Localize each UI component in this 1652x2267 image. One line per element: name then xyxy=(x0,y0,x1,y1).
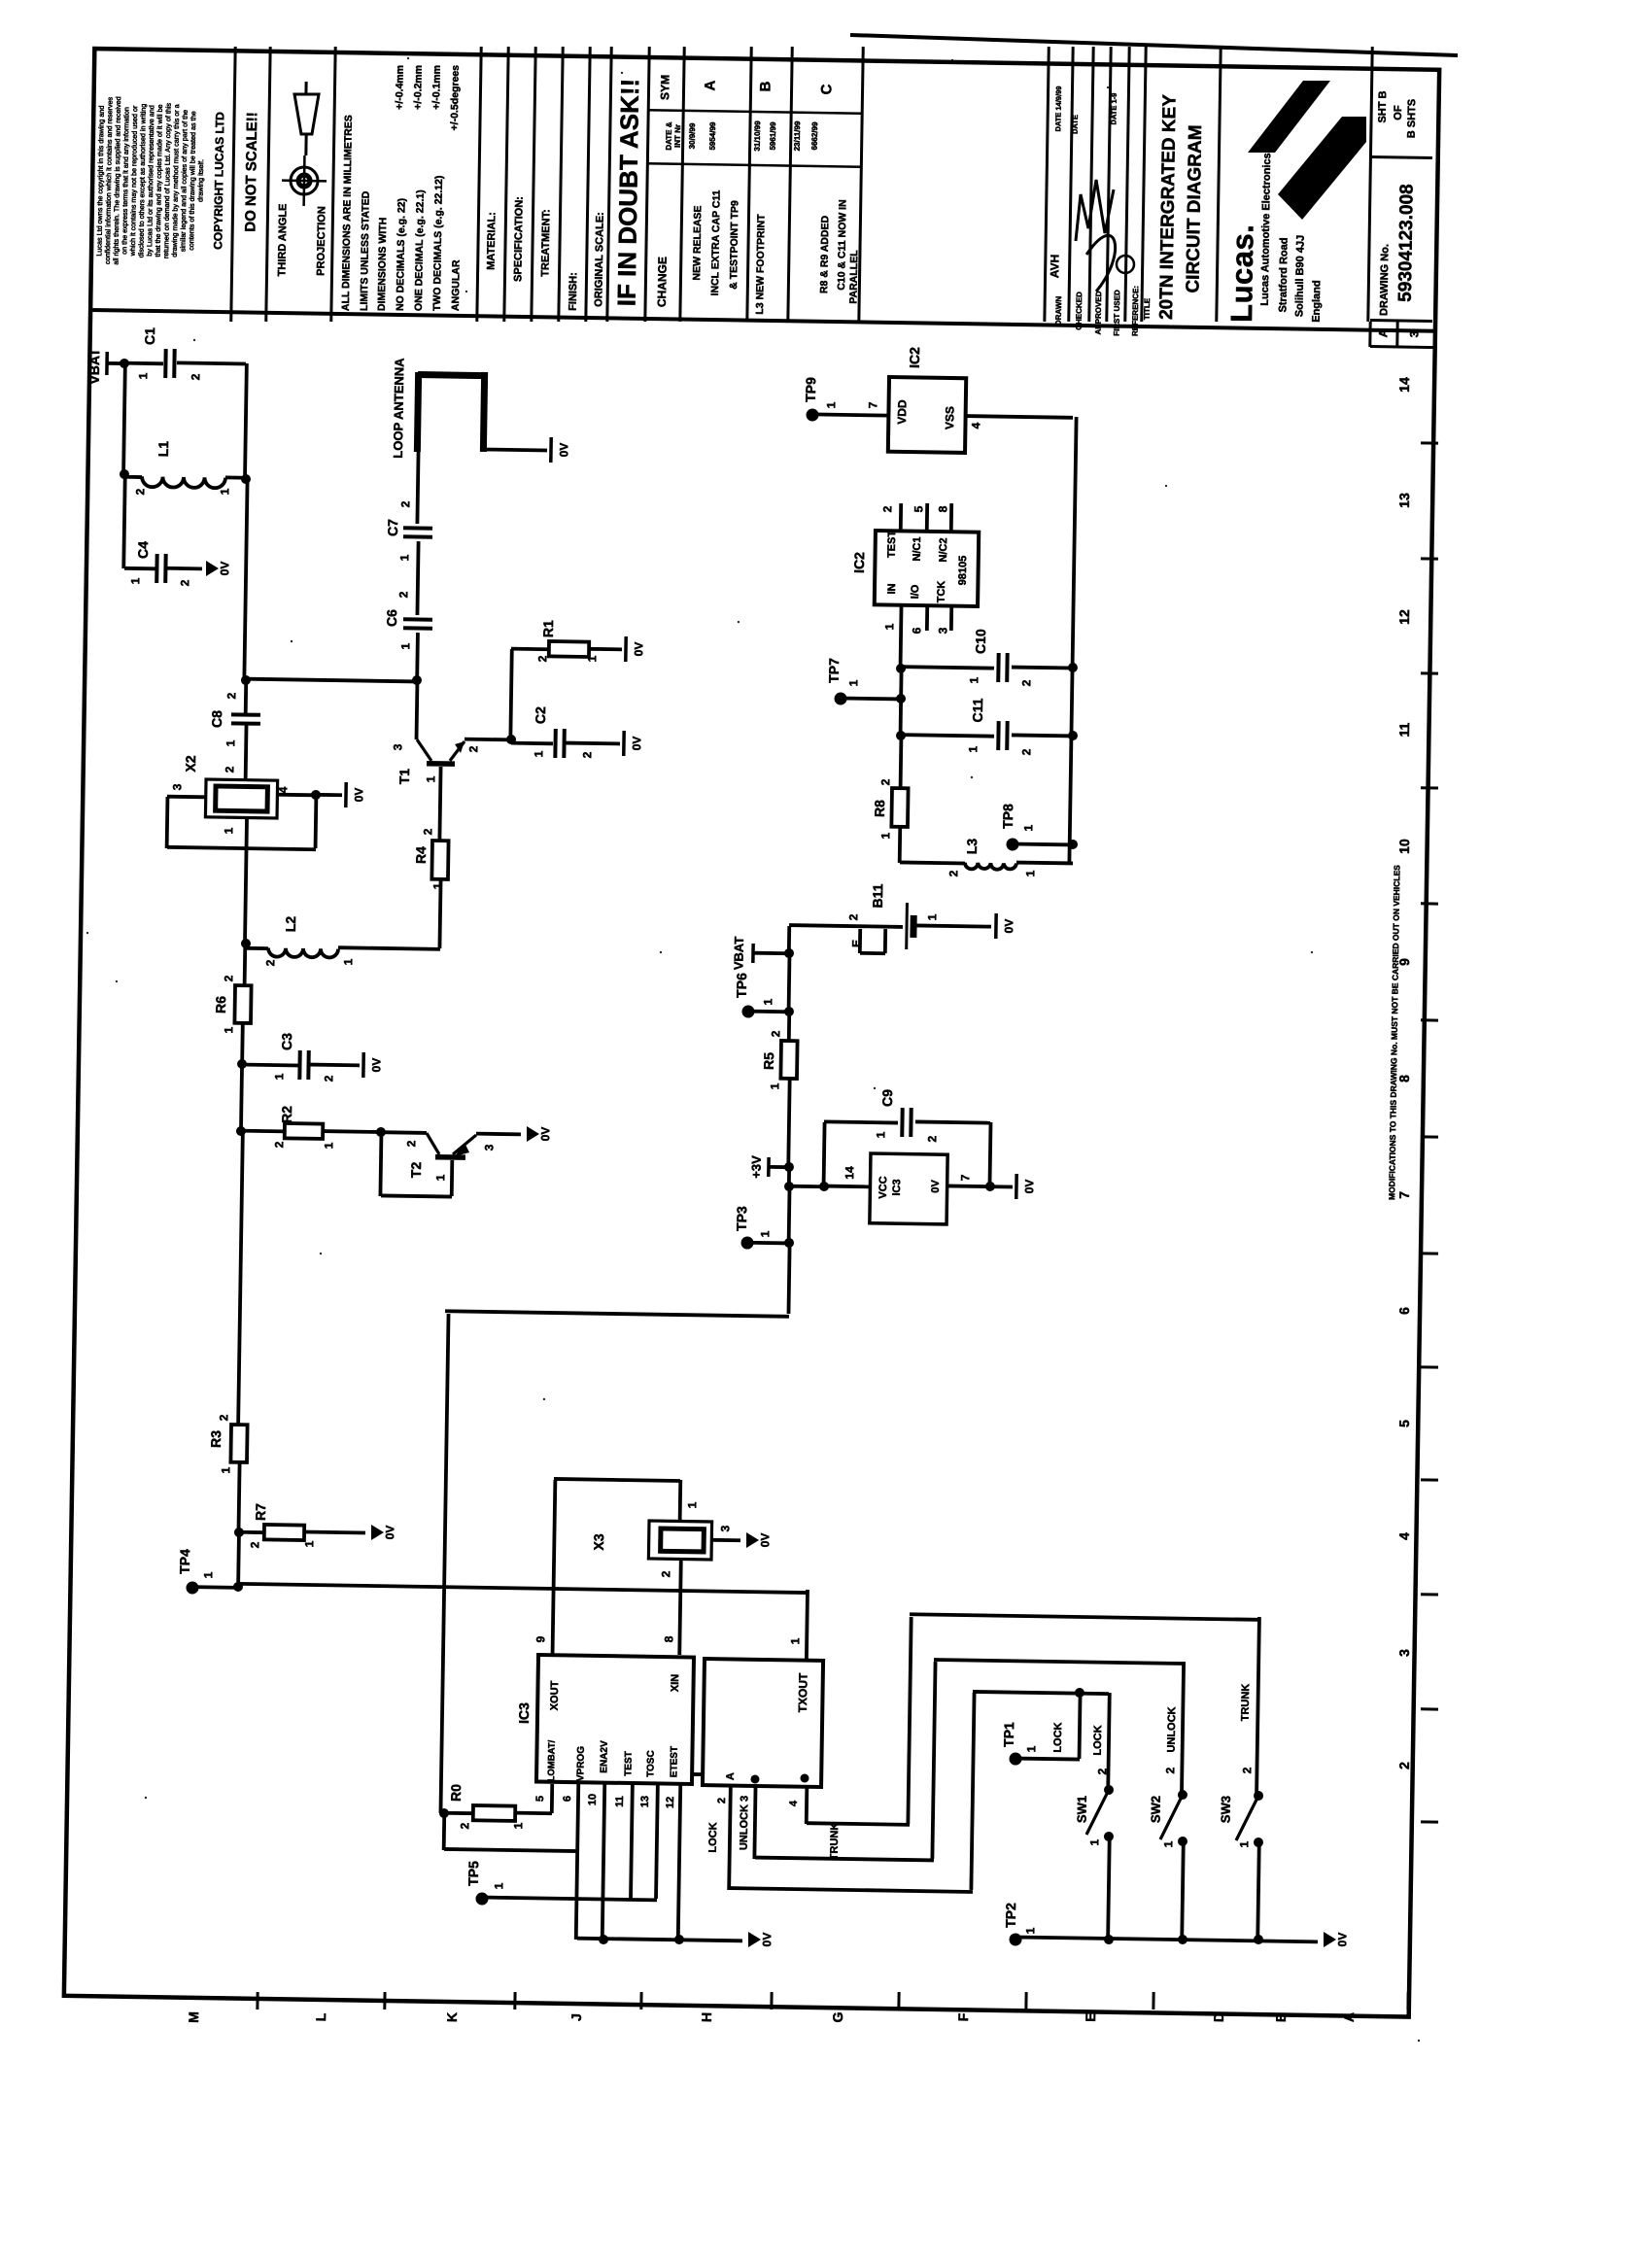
svg-text:VCC: VCC xyxy=(878,1176,889,1198)
svg-text:LOCK: LOCK xyxy=(1052,1722,1064,1752)
svg-text:K: K xyxy=(444,2012,460,2022)
wire R6 to C3 node xyxy=(240,1023,244,1064)
material divider xyxy=(504,47,508,322)
node L1 left xyxy=(120,469,129,479)
wire node to C9 loop node xyxy=(789,1185,824,1188)
node pin12 ground xyxy=(674,1935,684,1944)
svg-text:C11: C11 xyxy=(970,698,985,722)
projection symbol cone xyxy=(293,94,319,135)
svg-text:A: A xyxy=(702,80,718,90)
wire LOCK bus to SW1 xyxy=(1108,1693,1110,1790)
TXOUT block xyxy=(703,1659,823,1787)
test point TP1 xyxy=(1009,1752,1021,1765)
test point TP7 xyxy=(834,692,846,704)
loop antenna symbol xyxy=(417,372,418,452)
ground 0V arrow at switch rail xyxy=(1324,1932,1336,1947)
node VCC branch xyxy=(784,1182,794,1191)
wire down to TP4 node xyxy=(236,1532,241,1587)
battery B11 xyxy=(789,925,903,927)
svg-text:0V: 0V xyxy=(632,642,645,657)
svg-text:IC2: IC2 xyxy=(851,552,867,573)
svg-text:E: E xyxy=(849,940,863,947)
svg-text:2: 2 xyxy=(1019,748,1033,755)
svg-text:9: 9 xyxy=(533,1635,547,1642)
svg-text:IC3: IC3 xyxy=(891,1179,903,1195)
wire X3 pin2 to XIN xyxy=(679,1560,681,1655)
IC2 pin 8 stub xyxy=(949,503,953,531)
svg-text:H: H xyxy=(699,2012,714,2022)
left rail down to R0 node xyxy=(440,1314,448,1813)
transistor T2 xyxy=(381,1130,427,1135)
svg-text:C6: C6 xyxy=(384,609,399,627)
svg-text:DATE: DATE xyxy=(1071,115,1080,134)
wire R0 to IC3 pin5 xyxy=(515,1811,552,1815)
svg-text:L3 NEW FOOTPRINT: L3 NEW FOOTPRINT xyxy=(754,214,768,315)
rev B divider xyxy=(788,47,792,322)
capacitor C7 xyxy=(403,526,432,530)
svg-text:1: 1 xyxy=(222,827,235,834)
svg-text:1: 1 xyxy=(424,775,437,782)
sig col divider 3 xyxy=(1089,47,1093,322)
svg-text:12: 12 xyxy=(665,1797,676,1808)
svg-text:+/-0.2mm: +/-0.2mm xyxy=(412,65,425,110)
svg-text:3: 3 xyxy=(391,743,404,750)
svg-text:IF IN DOUBT ASK!!: IF IN DOUBT ASK!! xyxy=(612,79,645,307)
svg-text:2: 2 xyxy=(1163,1767,1177,1773)
wire X3 pin3 to ground arrow xyxy=(711,1538,740,1542)
svg-text:0V: 0V xyxy=(1002,919,1015,934)
IC3 pin 13 stub xyxy=(656,1784,658,1899)
wire X3 pin1 loop to XOUT xyxy=(678,1480,682,1521)
wire T2 collector to ground arrow xyxy=(476,1132,521,1137)
svg-text:0V: 0V xyxy=(383,1526,396,1540)
IC2 pin 6 stub xyxy=(925,606,929,631)
crystal X3 xyxy=(648,1521,711,1560)
svg-text:L2: L2 xyxy=(283,916,298,933)
svg-text:2: 2 xyxy=(466,745,480,752)
wire IC2 VSS to right rail xyxy=(965,416,1073,418)
svg-text:VBAT: VBAT xyxy=(86,348,103,385)
node SW3 ground xyxy=(1254,1935,1263,1944)
svg-text:1: 1 xyxy=(1087,1838,1101,1845)
svg-text:ALL DIMENSIONS ARE IN MILLIMET: ALL DIMENSIONS ARE IN MILLIMETRES xyxy=(340,115,355,311)
svg-text:IC2: IC2 xyxy=(907,347,922,368)
svg-text:1: 1 xyxy=(201,1571,215,1578)
svg-text:CHECKED: CHECKED xyxy=(1075,292,1084,330)
wire C4 to ground xyxy=(167,567,202,570)
svg-text:31/10/99: 31/10/99 xyxy=(753,120,762,152)
specification divider xyxy=(532,47,535,322)
capacitor C11 xyxy=(901,735,994,737)
svg-text:COPYRIGHT LUCAS LTD: COPYRIGHT LUCAS LTD xyxy=(211,112,226,250)
svg-text:2: 2 xyxy=(322,1075,335,1082)
wire node down to C8 xyxy=(244,680,248,713)
ground 0V at R1 xyxy=(624,636,628,662)
svg-text:20TN INTERGRATED KEY: 20TN INTERGRATED KEY xyxy=(1156,94,1181,321)
svg-text:D: D xyxy=(1211,2012,1226,2022)
wire rail between xyxy=(901,669,902,736)
svg-text:I/O: I/O xyxy=(910,584,921,599)
svg-text:1: 1 xyxy=(136,372,150,379)
svg-text:4: 4 xyxy=(788,1800,800,1806)
svg-text:98105: 98105 xyxy=(957,556,969,586)
wire TRUNK bus to SW3 xyxy=(1256,1617,1259,1796)
wire C2 to ground xyxy=(566,741,620,746)
title block separator line xyxy=(90,310,1435,331)
svg-text:LOMBAT/: LOMBAT/ xyxy=(546,1739,558,1781)
svg-text:0V: 0V xyxy=(538,1127,552,1142)
wire T1 emitter to node xyxy=(465,738,511,742)
node SW2 ground xyxy=(1178,1935,1187,1944)
svg-text:5: 5 xyxy=(912,505,925,512)
svg-text:NEW RELEASE: NEW RELEASE xyxy=(691,205,704,280)
svg-text:1: 1 xyxy=(761,998,774,1005)
svg-text:IN: IN xyxy=(886,583,898,594)
svg-text:1: 1 xyxy=(397,554,411,561)
svg-text:R6: R6 xyxy=(213,996,228,1013)
svg-text:0V: 0V xyxy=(369,1058,383,1073)
node R2 junction xyxy=(236,1126,246,1136)
svg-text:1: 1 xyxy=(222,1026,235,1033)
projection divider xyxy=(331,47,335,322)
svg-text:13: 13 xyxy=(1396,493,1412,508)
wire C7 to C6 xyxy=(417,541,418,615)
svg-text:A: A xyxy=(1341,2012,1357,2022)
wire node to C3 xyxy=(242,1063,298,1068)
svg-text:TP1: TP1 xyxy=(1001,1722,1016,1747)
page edge line top right xyxy=(850,35,1458,55)
IC3 pin 5 stub xyxy=(550,1784,554,1813)
svg-text:SPECIFICATION:: SPECIFICATION: xyxy=(512,196,525,282)
svg-text:F: F xyxy=(955,2012,971,2021)
wire TP4 node to TXOUT pin 1 xyxy=(238,1584,808,1593)
svg-text:TP7: TP7 xyxy=(826,658,842,683)
svg-text:1: 1 xyxy=(433,1174,447,1181)
wire left rail down to R8 xyxy=(899,736,904,788)
svg-text:10: 10 xyxy=(1396,839,1412,854)
switch SW2 xyxy=(1178,1790,1187,1800)
svg-text:C2: C2 xyxy=(533,706,548,724)
svg-text:1: 1 xyxy=(788,1637,802,1644)
capacitor C6 xyxy=(403,617,432,621)
wire corner down to L1 right node xyxy=(245,363,247,479)
svg-text:A: A xyxy=(725,1772,737,1780)
svg-text:VDD: VDD xyxy=(895,399,909,425)
wire R2 node down to R3 xyxy=(238,1131,243,1425)
wire rail to IC3 pin6 xyxy=(442,1813,446,1850)
svg-text:2: 2 xyxy=(223,766,236,773)
sig col divider 4 xyxy=(1107,47,1111,322)
svg-text:R5: R5 xyxy=(761,1052,776,1070)
svg-text:6: 6 xyxy=(562,1796,573,1802)
svg-text:R2: R2 xyxy=(279,1106,294,1123)
svg-text:T2: T2 xyxy=(408,1161,424,1178)
svg-text:2: 2 xyxy=(1019,679,1033,686)
ground 0V arrow at X3 xyxy=(746,1532,759,1548)
svg-text:2: 2 xyxy=(272,1141,286,1148)
wire to VCC branch node xyxy=(787,1167,791,1186)
svg-text:ORIGINAL SCALE:: ORIGINAL SCALE: xyxy=(593,212,606,307)
svg-text:1: 1 xyxy=(272,1073,286,1080)
date row underline xyxy=(647,163,861,166)
wire X2 case pin3 loop xyxy=(167,795,206,799)
svg-text:2: 2 xyxy=(1095,1768,1109,1774)
wire node to IC3 VCC pin14 xyxy=(824,1185,871,1189)
svg-text:2: 2 xyxy=(133,488,147,495)
svg-text:2: 2 xyxy=(535,655,549,662)
svg-text:TP8: TP8 xyxy=(1000,804,1015,829)
TXOUT pin C dot xyxy=(800,1773,809,1782)
inductor L1 xyxy=(124,475,142,479)
test point TP4 xyxy=(186,1581,198,1594)
node C8 top xyxy=(241,675,251,685)
svg-text:8: 8 xyxy=(1396,1075,1412,1082)
test point TP9 xyxy=(806,408,818,421)
node +3V junction xyxy=(784,1162,794,1172)
node C3 junction xyxy=(237,1059,247,1069)
switch SW3 xyxy=(1254,1791,1263,1801)
svg-text:T1: T1 xyxy=(396,769,412,785)
svg-text:VBAT: VBAT xyxy=(731,937,746,971)
resistor R3 xyxy=(230,1425,247,1462)
node LOCK TP1 junction xyxy=(1075,1688,1084,1698)
svg-text:1: 1 xyxy=(398,642,412,649)
wire R8 down to L3 xyxy=(898,827,902,863)
svg-text:Lucas.: Lucas. xyxy=(1224,223,1260,323)
wire X2 pin4 to case node xyxy=(277,793,316,797)
node SW1 ground xyxy=(1104,1935,1114,1944)
svg-text:+/-0.5degrees: +/-0.5degrees xyxy=(449,65,462,131)
resistor R1 xyxy=(549,641,589,657)
capacitor C1 xyxy=(163,349,167,378)
svg-text:AVH: AVH xyxy=(1048,255,1061,279)
svg-text:2: 2 xyxy=(396,591,410,598)
wire VBAT to C1 xyxy=(124,361,163,365)
power terminal +3V xyxy=(767,1157,771,1177)
capacitor C8 xyxy=(231,712,260,716)
tolerance divider xyxy=(477,47,481,322)
svg-text:1: 1 xyxy=(824,401,838,408)
svg-text:drawing itself.: drawing itself. xyxy=(195,159,205,202)
svg-text:0V: 0V xyxy=(630,737,643,751)
svg-text:2: 2 xyxy=(404,1140,418,1147)
node VBAT2 junction xyxy=(784,948,794,958)
TXOUT pin 3 stub UNLOCK xyxy=(754,1787,755,1859)
svg-text:B11: B11 xyxy=(870,883,885,908)
svg-text:LOOP ANTENNA: LOOP ANTENNA xyxy=(391,358,407,459)
wire C3 node down to R2 node xyxy=(241,1064,242,1131)
svg-text:1: 1 xyxy=(492,1882,505,1889)
wire case node to ground xyxy=(316,793,342,797)
svg-text:1: 1 xyxy=(966,745,980,752)
svg-text:4: 4 xyxy=(276,786,290,793)
svg-text:C8: C8 xyxy=(209,710,224,728)
sig col divider 5 xyxy=(1125,47,1129,322)
ground 0V at X2 case xyxy=(344,782,348,807)
projection symbol target circle xyxy=(291,167,318,194)
svg-text:R0: R0 xyxy=(448,1784,464,1802)
svg-text:10: 10 xyxy=(587,1794,599,1805)
node TP6 junction xyxy=(784,1007,794,1016)
svg-text:2: 2 xyxy=(189,373,202,380)
svg-text:England: England xyxy=(1311,280,1324,323)
switch common 0V rail xyxy=(1015,1937,1318,1941)
svg-text:DRAWN: DRAWN xyxy=(1054,296,1063,326)
issue row cells xyxy=(1368,322,1371,347)
svg-text:2: 2 xyxy=(846,913,860,920)
svg-text:MODIFICATIONS TO THIS DRAWING: MODIFICATIONS TO THIS DRAWING No. MUST N… xyxy=(1387,865,1401,1200)
svg-text:APPROVED: APPROVED xyxy=(1094,291,1104,334)
svg-text:5954/99: 5954/99 xyxy=(708,121,717,151)
node C9 loop xyxy=(819,1182,829,1191)
ground 0V arrow at T2 xyxy=(527,1126,539,1142)
sht cell divider xyxy=(1370,156,1432,157)
svg-text:C4: C4 xyxy=(135,541,151,559)
node R0 junction xyxy=(439,1808,449,1818)
wire node to R7 xyxy=(239,1530,264,1534)
TXOUT pin 4 stub TRUNK xyxy=(805,1787,809,1824)
svg-text:NO DECIMALS (e.g. 22): NO DECIMALS (e.g. 22) xyxy=(395,198,408,311)
resistor R7 xyxy=(264,1525,304,1540)
svg-text:2: 2 xyxy=(1396,1762,1412,1769)
svg-text:C9: C9 xyxy=(879,1089,895,1107)
svg-text:CHANGE: CHANGE xyxy=(655,257,670,307)
IC3 pin 12 stub xyxy=(678,1784,681,1940)
power terminal VBAT xyxy=(105,352,109,375)
wire T2 emitter loop xyxy=(380,1132,381,1196)
svg-text:1: 1 xyxy=(218,488,231,495)
svg-text:2: 2 xyxy=(659,1570,672,1577)
grid ticks bottom edge xyxy=(256,1992,258,2009)
IC3 supply block VCC xyxy=(870,1153,947,1224)
svg-text:2: 2 xyxy=(580,751,594,758)
svg-text:LOCK: LOCK xyxy=(707,1822,719,1852)
svg-text:14: 14 xyxy=(1396,377,1412,393)
svg-text:XOUT: XOUT xyxy=(549,1680,561,1710)
wire X2 pin1 down to L2 node xyxy=(245,818,247,944)
svg-text:A: A xyxy=(1376,328,1390,337)
ground 0V at C4 xyxy=(206,561,219,576)
svg-text:3: 3 xyxy=(1396,1649,1412,1657)
wire C3 to ground xyxy=(310,1063,360,1068)
wire L1 right node down to C8 node xyxy=(244,479,247,680)
resistor R0 xyxy=(473,1805,516,1821)
svg-text:TRUNK: TRUNK xyxy=(1240,1684,1253,1722)
test point TP6 xyxy=(741,1005,754,1017)
ask divider xyxy=(645,47,649,322)
IC2 pin 1 stub to rail xyxy=(901,606,902,669)
svg-text:UNLOCK 3: UNLOCK 3 xyxy=(739,1796,751,1850)
wire TRUNK bus xyxy=(807,1823,910,1825)
svg-text:+/-0.1mm: +/-0.1mm xyxy=(430,65,443,110)
svg-text:2: 2 xyxy=(769,1030,782,1037)
svg-text:PARALLEL: PARALLEL xyxy=(847,250,860,304)
svg-text:6: 6 xyxy=(1396,1307,1412,1315)
svg-text:3: 3 xyxy=(482,1144,496,1151)
svg-text:TRUNK: TRUNK xyxy=(829,1823,842,1861)
wire node up to R1 xyxy=(510,649,511,739)
svg-text:2: 2 xyxy=(880,505,894,512)
svg-text:VPROG: VPROG xyxy=(575,1746,587,1782)
svg-text:LOCK: LOCK xyxy=(1092,1725,1104,1755)
wire R5 down to +3V node xyxy=(788,1079,789,1167)
node T2 base xyxy=(376,1127,386,1137)
wire C6 down to antenna node xyxy=(415,633,420,680)
wire TP6 node to R5 xyxy=(787,1012,791,1041)
svg-text:1: 1 xyxy=(341,958,355,965)
svg-text:2: 2 xyxy=(878,778,892,785)
node L1 right xyxy=(241,474,251,484)
IC2 pin 2 stub xyxy=(899,503,903,531)
sym header underline xyxy=(647,110,861,113)
TXOUT pin B dot xyxy=(750,1774,759,1783)
node VBAT junction xyxy=(120,359,129,368)
ground 0V at C2 xyxy=(622,731,626,756)
wire across to antenna node xyxy=(246,679,417,682)
svg-text:1: 1 xyxy=(1023,1927,1037,1934)
node antenna junction xyxy=(412,675,422,685)
wire antenna left leg down to C7 xyxy=(417,452,418,524)
wire rail corner to left rail xyxy=(788,1243,789,1314)
node C11 right xyxy=(1068,731,1078,740)
wire node to C2 xyxy=(509,739,513,743)
svg-text:R1: R1 xyxy=(540,620,556,637)
wire right rail down xyxy=(1069,417,1076,863)
svg-text:TP4: TP4 xyxy=(177,1549,192,1574)
svg-text:6: 6 xyxy=(910,627,923,634)
resistor R8 xyxy=(891,788,908,827)
svg-text:2: 2 xyxy=(458,1822,471,1829)
svg-text:R7: R7 xyxy=(253,1503,268,1521)
wire antenna right leg to ground xyxy=(484,449,547,450)
svg-text:1: 1 xyxy=(224,739,237,746)
sig col divider 2 xyxy=(1069,47,1073,322)
IC3 pin 11 stub xyxy=(631,1784,633,1899)
wire TP5 to pin stubs xyxy=(482,1898,657,1901)
wire rail down to TP3 xyxy=(787,1186,792,1243)
svg-text:TP9: TP9 xyxy=(803,377,818,402)
svg-text:1: 1 xyxy=(322,1142,335,1149)
svg-text:E: E xyxy=(1083,2012,1098,2022)
svg-text:TP6: TP6 xyxy=(734,973,749,998)
wire IC3 ground bus xyxy=(577,1939,742,1941)
svg-text:3: 3 xyxy=(170,783,184,790)
test point TP5 xyxy=(475,1892,488,1905)
svg-text:1: 1 xyxy=(128,577,142,584)
svg-text:11: 11 xyxy=(614,1796,626,1807)
wire R3 down to R7 node xyxy=(238,1462,239,1532)
node pin10 ground xyxy=(599,1935,608,1944)
wire C1 to corner xyxy=(177,362,246,363)
node C9 right junction xyxy=(985,1182,995,1191)
svg-text:TXOUT: TXOUT xyxy=(796,1672,810,1713)
svg-text:INCL EXTRA CAP C11: INCL EXTRA CAP C11 xyxy=(709,189,723,295)
wire LOCK bus xyxy=(730,1888,973,1892)
svg-text:SYM: SYM xyxy=(658,75,671,100)
svg-text:X2: X2 xyxy=(183,755,198,773)
svg-text:3: 3 xyxy=(936,627,949,634)
svg-text:TWO DECIMALS (e.g. 22.12): TWO DECIMALS (e.g. 22.12) xyxy=(431,175,445,311)
svg-text:N/C1: N/C1 xyxy=(912,536,923,561)
photocopy mark top right xyxy=(1631,85,1646,94)
svg-text:TP2: TP2 xyxy=(1003,1903,1018,1928)
svg-text:DATE 1-9: DATE 1-9 xyxy=(1109,93,1119,125)
ground 0V at C3 xyxy=(361,1052,365,1078)
svg-text:2: 2 xyxy=(263,959,277,966)
svg-text:TITLE: TITLE xyxy=(1143,297,1152,320)
svg-text:0V: 0V xyxy=(1022,1180,1036,1194)
svg-text:DIMENSIONS WITH: DIMENSIONS WITH xyxy=(376,218,390,311)
